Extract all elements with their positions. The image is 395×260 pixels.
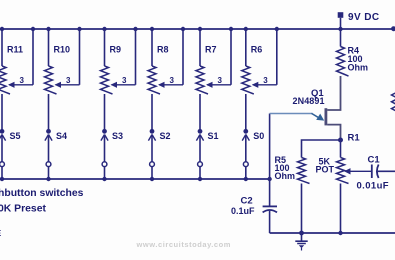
svg-text:R7: R7 [205,45,217,55]
node 9V DC terminal [338,12,380,29]
svg-text:S4: S4 [56,131,67,141]
svg-text:hbutton switches: hbutton switches [0,188,84,199]
node R5 ground junction [299,231,304,236]
svg-text:3: 3 [218,76,223,85]
resistor R9 (10K preset) branch [101,27,138,130]
svg-text:S3: S3 [112,131,123,141]
svg-text:3: 3 [20,76,25,85]
resistor R8 (10K preset) branch [148,27,185,130]
svg-text:S0: S0 [253,131,264,141]
svg-text:Ohm: Ohm [348,63,369,73]
switch S5 pushbutton [0,129,21,181]
resistor R6 (10K preset) branch [242,27,279,130]
svg-text:Ohm: Ohm [275,171,296,181]
resistor R7 (10K preset) branch [196,27,233,130]
svg-text:2N4891: 2N4891 [293,96,325,106]
svg-text:3: 3 [122,76,127,85]
resistor R10 (10K preset) branch [45,27,82,130]
wire switch common rail [0,178,270,180]
svg-text:0.01uF: 0.01uF [357,181,390,192]
resistor R5 100 Ohm [275,155,310,233]
svg-text:R1: R1 [348,133,361,144]
svg-text:3: 3 [66,76,71,85]
svg-text:9V DC: 9V DC [348,12,379,23]
transistor Q1 2N4891 [293,76,341,140]
svg-text:R9: R9 [110,45,122,55]
svg-text:R8: R8 [157,45,169,55]
node gate junction [267,177,271,181]
wire gate node vertical [269,114,271,207]
wire R1 node to R5 [302,140,341,158]
wire gate lead [270,113,325,120]
potentiometer R1 5K POT [316,140,372,233]
svg-text:0.1uF: 0.1uF [231,206,255,216]
svg-text:C1: C1 [368,155,381,166]
switch S0 pushbutton [242,129,264,181]
wire top +9V rail [0,28,394,30]
svg-text:POT: POT [316,165,335,175]
capacitor C2 0.1uF [231,196,277,234]
resistor R11 (10K preset) branch [0,27,35,130]
switch S2 pushbutton [148,129,170,181]
capacitor C1 0.01uF [357,155,395,192]
switch S1 pushbutton [196,129,218,181]
node R1 [338,133,360,144]
svg-text:R11: R11 [7,45,23,55]
svg-text:S2: S2 [160,131,171,141]
svg-text:0K Preset: 0K Preset [0,204,46,215]
svg-text:S5: S5 [10,131,21,141]
ground symbol [295,233,307,251]
switch S3 pushbutton [101,129,123,181]
svg-text:S1: S1 [208,131,219,141]
svg-text:3: 3 [170,76,175,85]
node POT ground junction [338,231,342,235]
svg-text:R10: R10 [54,45,71,55]
svg-text:www.circuitstoday.com: www.circuitstoday.com [136,240,232,249]
svg-text:R6: R6 [251,45,263,55]
switch S4 pushbutton [45,129,67,181]
resistor R4 100 Ohm [337,27,369,76]
svg-text:3: 3 [263,76,268,85]
wire ground rail [270,232,395,234]
resistor partial at right edge [391,26,395,112]
svg-text:C2: C2 [241,196,253,207]
